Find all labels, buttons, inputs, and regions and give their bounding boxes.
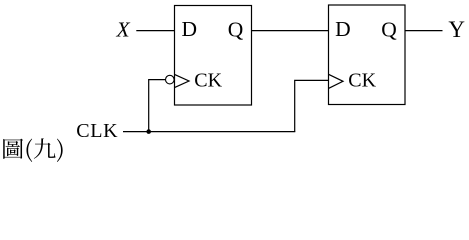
caption 圖(九) drawn as paths xyxy=(3,138,62,162)
inversion bubble on U1 clock input xyxy=(166,75,175,84)
wire U2 Q output to Y xyxy=(405,30,443,32)
D flip-flop U1 box xyxy=(175,6,252,106)
junction dot on CLK wire xyxy=(146,129,151,134)
wire CLK branch up to U2 clock input xyxy=(295,80,329,131)
wire X to U1 D input xyxy=(136,30,174,32)
svg-text:D: D xyxy=(335,17,351,41)
caption glyph 圖 xyxy=(3,139,23,159)
svg-text:X: X xyxy=(116,18,131,42)
svg-text:CLK: CLK xyxy=(76,120,118,142)
caption glyph 九 xyxy=(34,138,56,158)
svg-text:Q: Q xyxy=(381,18,397,42)
svg-text:D: D xyxy=(182,17,198,41)
svg-text:Y: Y xyxy=(448,17,465,42)
clock edge triangle of U1 xyxy=(175,74,190,87)
svg-text:CK: CK xyxy=(194,69,222,91)
wire CLK horizontal xyxy=(123,131,295,133)
svg-text:CK: CK xyxy=(348,69,376,91)
wire CLK branch up to U1 clock bubble xyxy=(149,80,166,132)
wire U1 Q output to U2 D input xyxy=(252,30,329,32)
D flip-flop U2 box xyxy=(329,5,406,105)
clock edge triangle of U2 xyxy=(329,74,344,88)
caption glyph ( xyxy=(26,139,32,162)
caption glyph ) xyxy=(57,139,63,162)
svg-text:Q: Q xyxy=(228,18,244,42)
